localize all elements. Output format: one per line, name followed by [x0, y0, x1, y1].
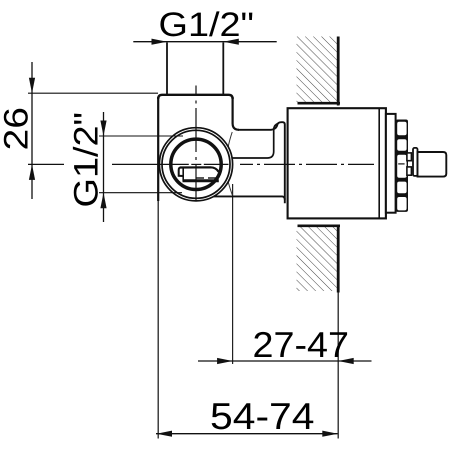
svg-text:G1/2": G1/2" — [68, 112, 106, 208]
svg-text:26: 26 — [0, 107, 36, 151]
svg-text:27-47: 27-47 — [253, 324, 350, 365]
svg-text:G1/2": G1/2" — [159, 6, 255, 44]
svg-text:54-74: 54-74 — [210, 395, 315, 437]
